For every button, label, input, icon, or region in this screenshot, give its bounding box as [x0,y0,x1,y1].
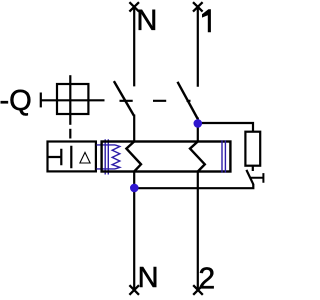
label 1 top [202,9,211,32]
actuator box (square) [57,84,88,114]
label N top [139,10,155,30]
primary conductor L zigzag through CT [190,142,205,172]
trip release contact symbol [48,146,72,168]
test resistor [245,132,260,166]
trip release box [48,142,96,172]
switch contact blade N pole [114,81,134,116]
wire L upper [197,6,199,87]
wire L lower [197,172,199,292]
CT housing rectangle [102,142,231,172]
actuator cross vertical [69,75,71,125]
test wire top [198,123,253,132]
primary conductor N zigzag through CT [126,142,141,172]
Q actuator horizontal link [41,99,105,101]
Q connection terminal bar [40,93,42,108]
label -Q [1,90,31,116]
label 2 bottom [200,267,214,288]
actuator link dash to trip box [69,129,71,139]
junction node on L wire [194,119,203,128]
CT secondary winding zigzag (blue) [112,145,120,169]
test button actuator [250,173,263,183]
CT core left laminations (blue) [105,139,108,174]
terminal X1 top-left (N in) [129,2,139,11]
mechanical linkage dashed line [120,100,191,102]
CT core right laminations (blue) [222,140,225,172]
trip coil wire bottom (blue) [97,168,116,170]
terminal X3 bottom-left (N out) [129,285,139,295]
wire N lower [133,172,135,292]
resistor bottom lead [252,166,254,171]
test button contact blade [246,170,253,184]
trip release delta symbol [80,152,90,163]
wire N middle [133,115,135,142]
switch contact blade L pole [178,82,198,119]
wire N upper [133,6,135,86]
junction node on N wire [130,184,139,193]
terminal X2 top-right (line 1 in) [193,2,203,11]
trip coil wire top (blue) [97,144,116,146]
terminal X4 bottom-right (2 out) [193,285,203,295]
wire L middle [197,118,199,142]
test wire bottom [134,184,253,188]
label N bottom [140,267,156,287]
